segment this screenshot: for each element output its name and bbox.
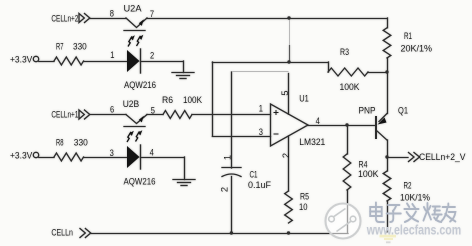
- svg-text:+3.3V: +3.3V: [10, 151, 33, 162]
- svg-text:CELLn: CELLn: [51, 228, 73, 239]
- svg-text:3: 3: [259, 127, 263, 137]
- svg-text:5: 5: [151, 106, 155, 116]
- svg-text:+3.3V: +3.3V: [10, 55, 33, 66]
- svg-text:R2: R2: [404, 181, 412, 192]
- svg-text:CELLn+1: CELLn+1: [51, 110, 78, 121]
- svg-text:2: 2: [150, 51, 154, 61]
- svg-text:330: 330: [73, 42, 87, 53]
- svg-text:R3: R3: [340, 47, 349, 58]
- svg-text:AQW216: AQW216: [124, 80, 156, 91]
- svg-text:LM321: LM321: [299, 137, 325, 148]
- svg-text:C1: C1: [250, 170, 258, 181]
- svg-text:10: 10: [299, 202, 308, 213]
- svg-text:100K: 100K: [183, 95, 203, 106]
- svg-text:0.1uF: 0.1uF: [248, 180, 271, 191]
- svg-text:U1: U1: [299, 94, 309, 105]
- svg-text:R6: R6: [162, 95, 173, 106]
- svg-text:CELLn+2_V: CELLn+2_V: [419, 152, 466, 163]
- svg-text:U2A: U2A: [124, 4, 143, 15]
- svg-text:8: 8: [110, 9, 114, 19]
- svg-text:6: 6: [110, 105, 114, 115]
- svg-text:R5: R5: [300, 192, 309, 203]
- svg-text:2: 2: [281, 153, 291, 158]
- svg-text:Q1: Q1: [398, 106, 408, 117]
- svg-text:1: 1: [259, 103, 263, 113]
- svg-text:R7: R7: [56, 42, 64, 53]
- svg-text:PNP: PNP: [359, 106, 376, 117]
- svg-text:1: 1: [223, 155, 233, 160]
- svg-text:3: 3: [110, 148, 114, 158]
- svg-text:R1: R1: [404, 31, 412, 42]
- svg-text:100K: 100K: [340, 82, 361, 93]
- svg-text:AQW216: AQW216: [124, 177, 156, 188]
- svg-text:330: 330: [74, 138, 88, 149]
- svg-text:4: 4: [150, 148, 154, 158]
- svg-text:20K/1%: 20K/1%: [401, 44, 433, 55]
- svg-text:100K: 100K: [358, 169, 379, 180]
- svg-text:CELLn+2: CELLn+2: [51, 14, 78, 25]
- svg-text:U2B: U2B: [123, 99, 140, 110]
- svg-text:7: 7: [150, 9, 154, 19]
- svg-text:2: 2: [220, 187, 230, 192]
- svg-text:1: 1: [110, 50, 114, 60]
- svg-text:R8: R8: [56, 138, 64, 149]
- svg-text:10K/1%: 10K/1%: [400, 193, 430, 204]
- svg-text:4: 4: [316, 116, 320, 126]
- svg-text:5: 5: [280, 90, 290, 95]
